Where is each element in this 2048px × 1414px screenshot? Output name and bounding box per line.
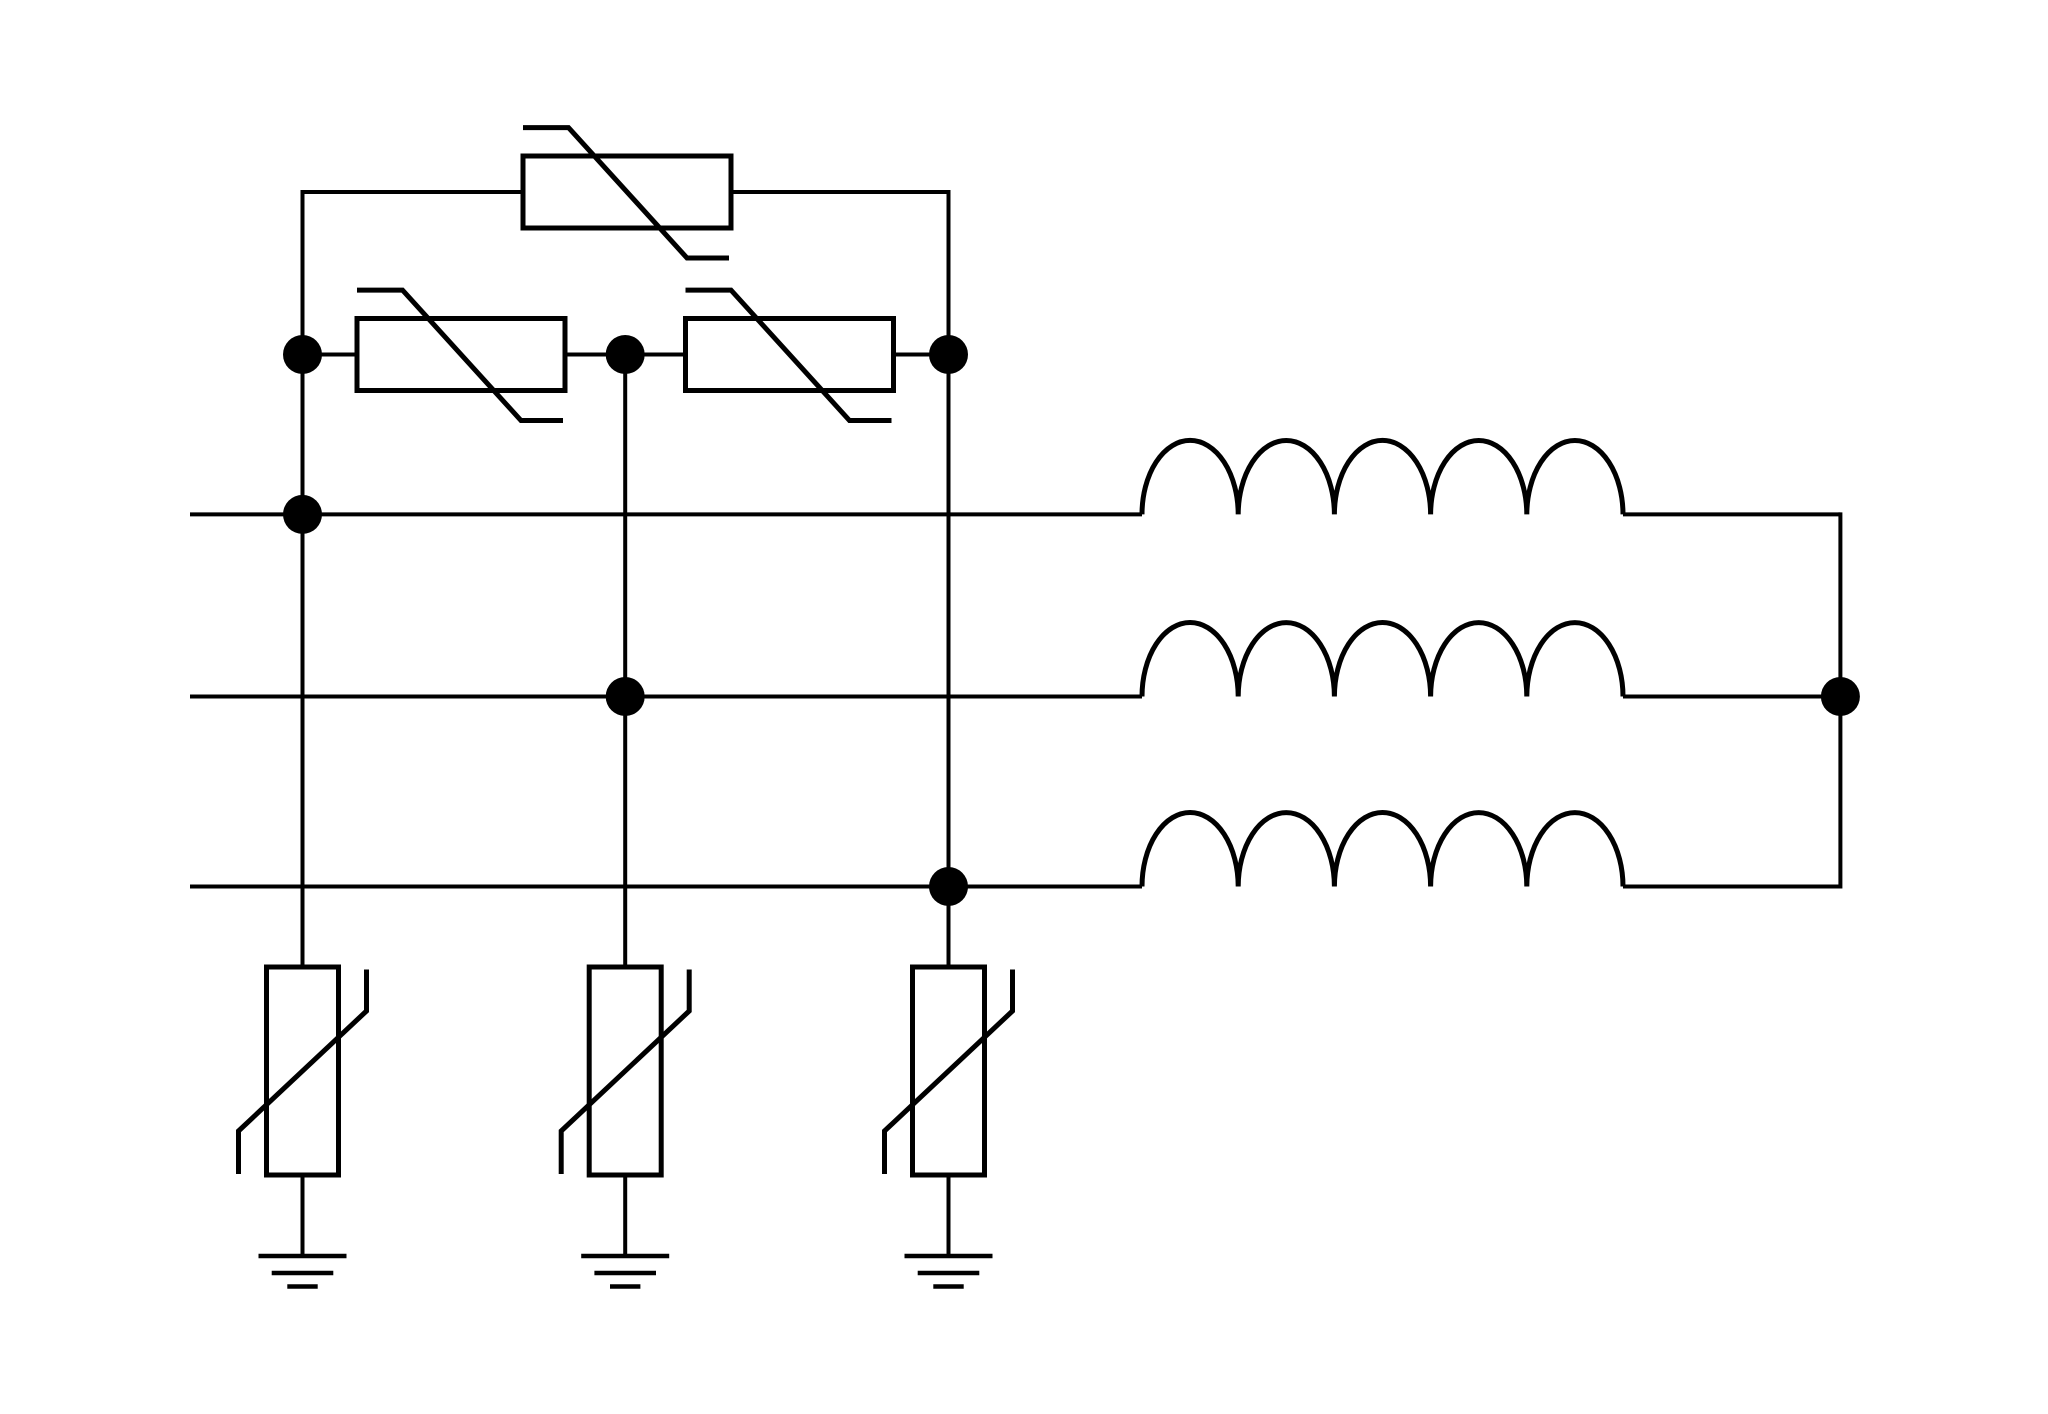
inductor L2 (phase B, 5 loops) — [1142, 623, 1623, 697]
inductor L1 (phase A, 5 loops) — [1142, 440, 1623, 514]
ground (under RV6) — [905, 1256, 993, 1287]
varistor RV5 (vertical, phase B to ground) — [561, 967, 689, 1175]
wire: middle vertical rail x=625 from row-2 node down to RV5 — [623, 355, 627, 968]
wire: top loop right segment (varistor RV1 right lead to right rail) — [731, 190, 949, 194]
varistor RV2 (second row left, horizontal) — [357, 290, 565, 420]
varistor RV4 (vertical, phase A to ground) — [239, 967, 367, 1175]
node: left row-2 junction — [283, 335, 322, 374]
wire: phase B line left of inductor L2 — [190, 695, 1142, 699]
wire: phase C line left of inductor L3 — [190, 885, 1142, 889]
varistor RV1 (top, horizontal) — [523, 128, 731, 258]
varistor RV6 (vertical, phase C to ground) — [885, 967, 1013, 1175]
wire: RV5 to ground — [623, 1175, 627, 1256]
wire: left vertical rail x=302.5 from top loop down to RV4 — [301, 190, 305, 967]
wire: row-2 between RV2 and RV3 through middle node — [565, 353, 686, 357]
wire: phase C line right of inductor L3 — [1623, 885, 1840, 889]
node: phase B tap junction — [606, 677, 645, 716]
ground (under RV4) — [259, 1256, 347, 1287]
wire: right vertical rail x=948.5 from top loop down to RV6 — [947, 190, 951, 967]
wire: right rail joining the three phases after the inductors — [1838, 512, 1842, 888]
wire: row-2 from left node to varistor RV2 — [303, 353, 358, 357]
wire: RV4 to ground — [301, 1175, 305, 1256]
wire: top loop left segment (node L1-phase to varistor RV1 left lead) — [303, 190, 524, 194]
wire: phase A line right of inductor L1 — [1623, 512, 1840, 516]
node: right rail junction with phase B — [1821, 677, 1860, 716]
ground (under RV5) — [581, 1256, 669, 1287]
node: phase C tap junction — [929, 867, 968, 906]
node: phase A tap junction — [283, 495, 322, 534]
wire: phase B line right of inductor L2 — [1623, 695, 1840, 699]
wire: row-2 from RV3 to right node — [894, 353, 949, 357]
inductor L3 (phase C, 5 loops) — [1142, 813, 1623, 887]
wire: RV6 to ground — [947, 1175, 951, 1256]
node: middle row-2 junction — [606, 335, 645, 374]
node: right row-2 junction — [929, 335, 968, 374]
varistor RV3 (second row right, horizontal) — [686, 290, 894, 420]
wire: phase A line left of inductor L1 — [190, 512, 1142, 516]
